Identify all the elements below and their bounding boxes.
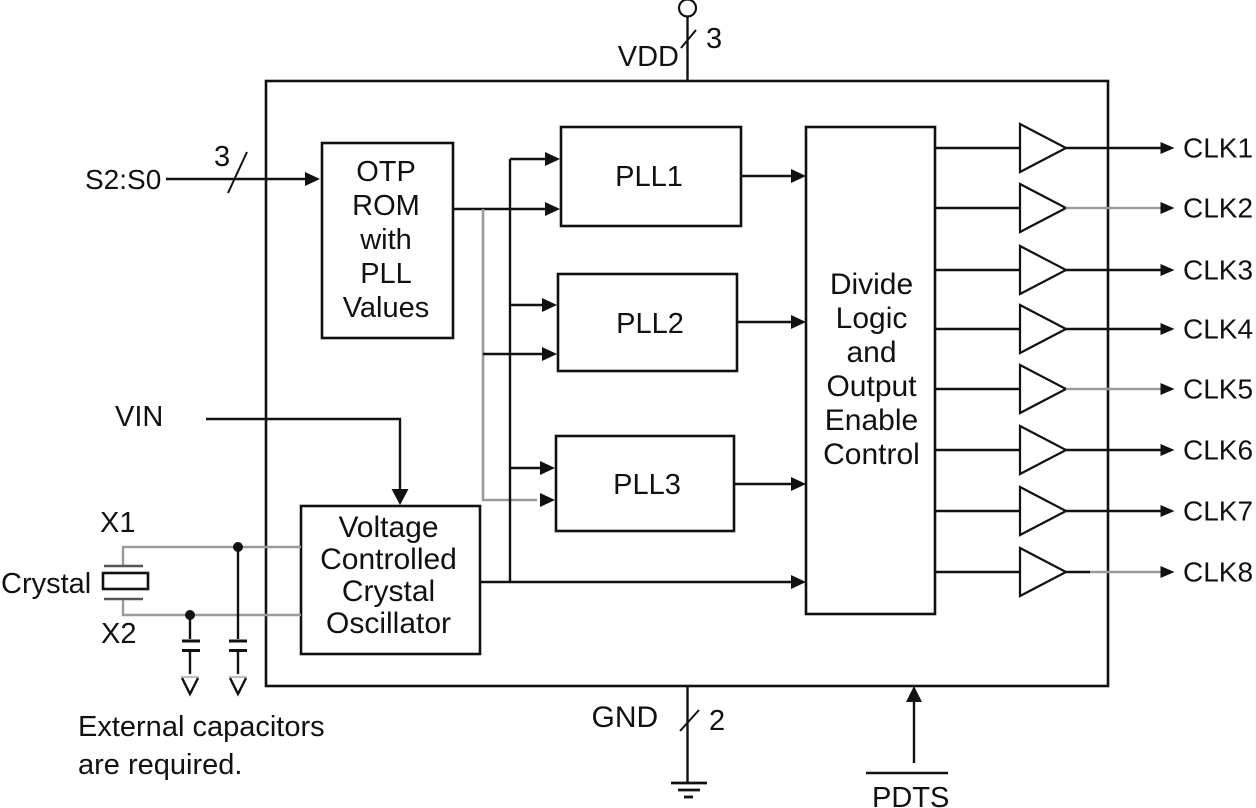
wire PDTS input: [913, 698, 915, 763]
svg-text:Controlled: Controlled: [320, 543, 457, 576]
wire VCXO output to divide logic: [479, 581, 794, 583]
arrowhead into PLL3 upper input: [540, 461, 555, 475]
arrowhead into PLL1 lower input: [545, 202, 560, 216]
arrowhead CLK4 output: [1161, 323, 1175, 335]
chip boundary box: [266, 81, 1108, 686]
grey OTP value bus vertical (node): [483, 209, 537, 500]
buffer B3: [1020, 246, 1066, 294]
arrowhead into PLL2 upper input: [542, 298, 557, 312]
buffer B4: [1020, 305, 1066, 353]
wire PLL1 output: [741, 175, 794, 177]
wire divide logic to buffer 7: [935, 510, 1020, 512]
wire buffer 7 to CLK7 pin: [1066, 510, 1163, 512]
wire OTP ROM output to PLL1 lower input: [453, 208, 548, 210]
off-page connector C1: [181, 676, 199, 678]
arrowhead CLK7 output: [1161, 505, 1175, 517]
buffer B7: [1020, 487, 1066, 535]
wire divide logic to buffer 5: [935, 388, 1020, 390]
svg-text:Divide: Divide: [830, 268, 913, 301]
wire branch to PLL1 upper input: [510, 158, 548, 160]
svg-text:CLK2: CLK2: [1183, 193, 1253, 224]
svg-text:PLL1: PLL1: [615, 161, 683, 193]
buffer B2: [1020, 184, 1066, 232]
capacitor C2 lower wire: [237, 652, 239, 674]
wire X1 to VCXO (grey): [123, 547, 301, 566]
arrowhead CLK8 output: [1161, 566, 1175, 578]
bus slash VDD: [681, 30, 696, 48]
capacitor C2 plates: [229, 640, 247, 643]
svg-text:CLK1: CLK1: [1183, 133, 1253, 164]
arrowhead CLK5 output: [1161, 383, 1175, 395]
svg-text:CLK6: CLK6: [1183, 435, 1253, 466]
svg-text:Enable: Enable: [825, 404, 918, 437]
off-page connector C2: [229, 676, 247, 678]
wire divide logic to buffer 4: [935, 328, 1020, 330]
wire VIN: [206, 419, 400, 492]
svg-text:VIN: VIN: [115, 401, 163, 433]
arrowhead VIN into VCXO: [392, 489, 409, 505]
svg-text:3: 3: [214, 141, 230, 173]
wire divide logic to buffer 3: [935, 269, 1020, 271]
svg-text:X2: X2: [101, 618, 136, 650]
svg-text:Output: Output: [826, 370, 917, 403]
arrowhead into PLL2 lower input: [542, 347, 557, 361]
arrowhead VCXO to divide logic: [791, 575, 806, 589]
wire buffer 6 to CLK6 pin: [1066, 449, 1163, 451]
svg-text:Logic: Logic: [836, 302, 908, 335]
capacitor C1 lower wire: [189, 652, 191, 674]
buffer B5: [1020, 365, 1066, 413]
arrowhead PDTS into chip: [906, 686, 922, 702]
ground symbol: [671, 782, 707, 785]
buffer B1: [1020, 124, 1066, 172]
arrowhead into OTP ROM: [305, 172, 320, 186]
svg-text:PLL3: PLL3: [613, 469, 681, 501]
VCXO box: [301, 506, 480, 654]
svg-text:PLL: PLL: [360, 258, 412, 290]
svg-text:2: 2: [709, 705, 725, 737]
svg-text:and: and: [846, 336, 896, 369]
VDD pin circle: [679, 0, 696, 17]
arrowhead into PLL1 upper input: [545, 152, 560, 166]
wire VDD to chip: [686, 16, 688, 81]
wire buffer 3 to CLK3 pin: [1066, 269, 1163, 271]
wire buffer 2 to CLK2 pin: [1066, 207, 1163, 209]
wire buffer 1 to CLK1 pin: [1066, 147, 1163, 149]
wire divide logic to buffer 8: [935, 571, 1020, 573]
arrowhead into PLL3 lower input: [540, 493, 555, 507]
divide logic box U-divider: [806, 127, 935, 614]
wire divide logic to buffer 2: [935, 207, 1020, 209]
PLL1 box: [561, 127, 741, 226]
PDTS overline: [866, 772, 948, 774]
wire buffer 4 to CLK4 pin: [1066, 328, 1163, 330]
svg-text:External capacitors: External capacitors: [78, 711, 325, 743]
svg-text:Voltage: Voltage: [338, 511, 438, 544]
svg-text:are required.: are required.: [78, 749, 242, 781]
wire buffer 5 to CLK5 pin: [1066, 388, 1163, 390]
crystal Y1 bottom plate: [104, 598, 143, 601]
wire buffer 8 to CLK8 pin: [1066, 571, 1090, 573]
svg-text:Oscillator: Oscillator: [326, 607, 451, 640]
junction node X2 wire: [185, 610, 195, 620]
svg-text:VDD: VDD: [618, 41, 679, 73]
svg-text:PLL2: PLL2: [616, 308, 684, 340]
capacitor C1 wire: [189, 615, 191, 639]
OTP ROM box: [322, 143, 453, 338]
arrowhead CLK2 output: [1161, 202, 1175, 214]
svg-text:GND: GND: [592, 701, 659, 734]
arrowhead PLL2 to divide logic: [791, 315, 806, 329]
wire PLL3 output: [734, 483, 794, 485]
svg-text:CLK7: CLK7: [1183, 496, 1253, 527]
svg-text:3: 3: [706, 23, 722, 55]
wire branch to PLL3 upper input: [510, 467, 543, 469]
svg-text:CLK5: CLK5: [1183, 374, 1253, 405]
svg-text:Values: Values: [343, 292, 430, 324]
svg-text:Crystal: Crystal: [1, 568, 91, 600]
buffer B8: [1020, 548, 1066, 596]
arrowhead CLK1 output: [1161, 142, 1175, 154]
svg-text:OTP: OTP: [356, 156, 416, 188]
svg-text:ROM: ROM: [352, 190, 420, 222]
bus slash S2:S0: [228, 152, 247, 193]
arrowhead CLK3 output: [1161, 264, 1175, 276]
arrowhead PLL1 to divide logic: [791, 169, 806, 183]
arrowhead PLL3 to divide logic: [791, 477, 806, 491]
buffer B6: [1020, 426, 1066, 474]
svg-text:CLK8: CLK8: [1183, 557, 1253, 588]
wire divide logic to buffer 6: [935, 449, 1020, 451]
capacitor C2 wire: [237, 547, 239, 639]
junction node X1 wire: [233, 542, 243, 552]
svg-text:CLK3: CLK3: [1183, 255, 1253, 286]
svg-text:Crystal: Crystal: [342, 575, 435, 608]
crystal Y1 body: [103, 573, 148, 589]
PLL2 box: [558, 274, 737, 371]
svg-text:with: with: [359, 224, 412, 256]
capacitor C1 plates: [182, 640, 200, 643]
bus slash GND: [680, 710, 699, 731]
wire grey bus branch to PLL2 lower input: [483, 353, 545, 355]
svg-text:X1: X1: [100, 507, 135, 539]
PLL3 box: [556, 436, 734, 531]
wire PLL2 output: [737, 321, 794, 323]
svg-text:PDTS: PDTS: [872, 782, 949, 808]
wire branch to PLL2 upper input: [510, 304, 545, 306]
VCXO clock bus vertical (node): [509, 159, 511, 582]
wire S2:S0 input: [166, 178, 307, 180]
svg-text:CLK4: CLK4: [1183, 314, 1253, 345]
arrowhead CLK6 output: [1161, 444, 1175, 456]
svg-text:Control: Control: [823, 438, 920, 471]
wire divide logic to buffer 1: [935, 147, 1020, 149]
svg-text:S2:S0: S2:S0: [85, 164, 161, 195]
wire X2 to VCXO (grey): [123, 599, 301, 615]
wire GND: [686, 686, 688, 783]
crystal Y1 top plate: [104, 565, 143, 568]
